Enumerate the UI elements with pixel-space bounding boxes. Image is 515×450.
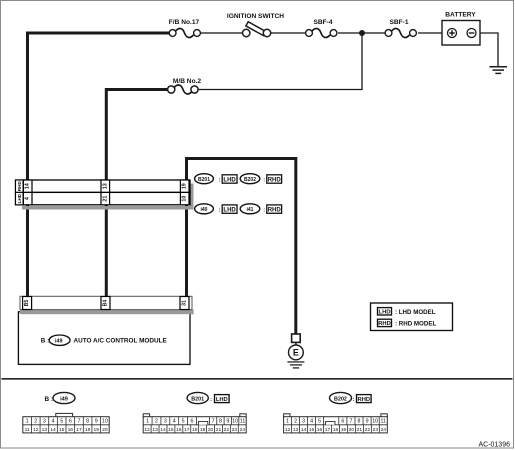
- svg-text:AC-01396: AC-01396: [478, 442, 510, 449]
- svg-text:7: 7: [77, 419, 80, 425]
- svg-text:12: 12: [144, 427, 150, 433]
- svg-text:11: 11: [25, 427, 30, 433]
- svg-text:17: 17: [325, 427, 331, 433]
- svg-text:24: 24: [381, 427, 387, 433]
- svg-text:22: 22: [224, 427, 230, 433]
- tag RHD for B202: [263, 175, 281, 184]
- svg-text:14: 14: [50, 427, 56, 433]
- svg-text:3: 3: [43, 419, 46, 425]
- wire: thick feed from M/B No.2 down to pin 13: [106, 90, 169, 182]
- svg-text::: :: [263, 207, 265, 213]
- svg-text:B201: B201: [198, 177, 210, 183]
- wire: pin 4 down to module pin B5: [26, 204, 29, 297]
- svg-text:SBF-1: SBF-1: [389, 19, 408, 26]
- pin 19: [180, 180, 189, 192]
- connector B201 oval: [195, 174, 214, 184]
- svg-text:6: 6: [69, 419, 72, 425]
- svg-text:LHD: LHD: [17, 193, 22, 203]
- wire: thick feed from F/B No.17 down left side to pin 14: [28, 33, 170, 181]
- battery: [442, 12, 480, 46]
- connector i40 oval: [195, 204, 214, 214]
- fuse SBF-1: [385, 19, 416, 37]
- svg-text:RHD: RHD: [268, 178, 282, 184]
- svg-text:4: 4: [173, 419, 176, 425]
- connector bar shadow (upper): [22, 184, 194, 210]
- svg-text:21: 21: [102, 196, 108, 202]
- svg-text:6: 6: [190, 419, 193, 425]
- svg-text:2: 2: [34, 419, 37, 425]
- svg-text:4: 4: [310, 419, 313, 425]
- wire: pin 10 down to module pin 31: [185, 204, 188, 297]
- svg-text:B5: B5: [24, 300, 30, 307]
- svg-text:LHD: LHD: [216, 397, 228, 403]
- tag LHD for i40: [219, 205, 237, 214]
- pin 31: [180, 297, 189, 310]
- fuse SBF-4: [306, 19, 337, 37]
- fuse M/B No.2: [168, 85, 199, 94]
- svg-text:IGNITION SWITCH: IGNITION SWITCH: [227, 13, 284, 20]
- module box AUTO A/C CONTROL MODULE: [18, 310, 193, 365]
- svg-text:10: 10: [182, 196, 188, 202]
- wire: thin bus at y=33 from F/B No.17 to ignition switch: [199, 32, 243, 34]
- module connector bar (lower): [20, 296, 192, 309]
- svg-text:11: 11: [381, 419, 387, 425]
- svg-text:1: 1: [26, 419, 29, 425]
- svg-text:1: 1: [146, 419, 149, 425]
- svg-text:15: 15: [59, 427, 65, 433]
- ground connector square at E: [292, 334, 301, 342]
- connector B202 oval: [240, 174, 260, 184]
- svg-text:7: 7: [349, 419, 352, 425]
- pin B4: [101, 297, 110, 310]
- legend tag RHD: [378, 319, 437, 327]
- footer label B202 : RHD: [330, 392, 372, 403]
- svg-text:3: 3: [302, 419, 305, 425]
- svg-text:24: 24: [240, 427, 246, 433]
- footer connector B201 pin grid: [143, 414, 246, 433]
- pin 14: [23, 180, 32, 192]
- svg-text:RHD: RHD: [358, 397, 371, 403]
- svg-text:7: 7: [212, 419, 215, 425]
- svg-text:4: 4: [25, 197, 31, 200]
- wire: thin M/B No.2 line rightward to junction drop: [197, 89, 363, 91]
- svg-text:23: 23: [232, 427, 238, 433]
- svg-text:5: 5: [60, 419, 63, 425]
- svg-text:B202: B202: [244, 177, 256, 183]
- pin 13: [101, 180, 110, 192]
- connector bar left tag RHD: [16, 180, 24, 192]
- svg-text:1: 1: [286, 419, 289, 425]
- svg-text:18: 18: [333, 427, 339, 433]
- svg-text:6: 6: [341, 419, 344, 425]
- svg-text:10: 10: [232, 419, 238, 425]
- svg-text:B201: B201: [191, 396, 204, 402]
- svg-text:31: 31: [182, 300, 188, 306]
- wire: thick branch from pin 19 over to ground connector drop: [187, 159, 296, 335]
- svg-text:19: 19: [94, 427, 100, 433]
- svg-text:3: 3: [164, 419, 167, 425]
- svg-text:LHD: LHD: [379, 310, 391, 316]
- section separator line: [2, 378, 513, 380]
- svg-text:B :: B :: [41, 338, 49, 345]
- svg-text:B4: B4: [103, 300, 109, 307]
- svg-text:M/B No.2: M/B No.2: [173, 78, 202, 85]
- svg-text:13: 13: [152, 427, 158, 433]
- svg-text:8: 8: [219, 419, 222, 425]
- svg-text:2: 2: [294, 419, 297, 425]
- svg-text:12: 12: [285, 427, 291, 433]
- wire: battery output to ground: [480, 33, 498, 66]
- svg-text:4: 4: [52, 419, 55, 425]
- svg-text:14: 14: [160, 427, 166, 433]
- svg-text:5: 5: [318, 419, 321, 425]
- legend box: [371, 303, 453, 331]
- svg-text:10: 10: [372, 419, 378, 425]
- svg-text:F/B No.17: F/B No.17: [169, 19, 200, 26]
- connector bar upper: rows: [16, 180, 191, 205]
- pin 4: [23, 192, 32, 204]
- svg-text:i41: i41: [247, 207, 254, 213]
- module connector bar shadow: [20, 310, 194, 315]
- svg-text:16: 16: [68, 427, 74, 433]
- svg-text::: :: [219, 177, 221, 183]
- svg-text:14: 14: [301, 427, 307, 433]
- svg-text:AUTO A/C CONTROL MODULE: AUTO A/C CONTROL MODULE: [74, 338, 168, 345]
- svg-text:19: 19: [200, 427, 206, 433]
- svg-text:i49: i49: [55, 338, 63, 344]
- svg-text:BATTERY: BATTERY: [445, 12, 476, 19]
- svg-text:9: 9: [95, 419, 98, 425]
- svg-text:22: 22: [365, 427, 371, 433]
- svg-text:13: 13: [102, 183, 108, 189]
- svg-text:RHD: RHD: [17, 181, 22, 192]
- wire: junction drop from dot to M/B No.2 line: [361, 33, 363, 90]
- svg-text:8: 8: [358, 419, 361, 425]
- svg-text:SBF-4: SBF-4: [313, 19, 332, 26]
- svg-text:12: 12: [33, 427, 39, 433]
- svg-text::: :: [219, 207, 221, 213]
- svg-text:20: 20: [208, 427, 214, 433]
- svg-text:21: 21: [216, 427, 222, 433]
- svg-text:10: 10: [102, 419, 108, 425]
- ground (battery): [490, 67, 508, 74]
- svg-text:19: 19: [182, 183, 188, 189]
- legend tag LHD: [378, 308, 436, 316]
- svg-text:i49: i49: [60, 396, 68, 402]
- fuse F/B No.17: [169, 19, 201, 37]
- ignition switch SW: [227, 13, 284, 37]
- svg-text:20: 20: [349, 427, 355, 433]
- svg-text:RHD: RHD: [378, 321, 391, 327]
- junction node: [359, 30, 365, 36]
- svg-text:B :: B :: [45, 396, 54, 403]
- pin B5: [23, 297, 32, 310]
- svg-text:8: 8: [86, 419, 89, 425]
- svg-text::: :: [263, 177, 265, 183]
- svg-text:E: E: [293, 348, 299, 358]
- svg-text:23: 23: [373, 427, 379, 433]
- svg-text:18: 18: [85, 427, 91, 433]
- svg-text:: RHD MODEL: : RHD MODEL: [395, 321, 436, 328]
- svg-text:13: 13: [42, 427, 48, 433]
- svg-text:14: 14: [25, 183, 31, 189]
- svg-text:17: 17: [184, 427, 190, 433]
- svg-text:20: 20: [102, 427, 108, 433]
- svg-text:B202: B202: [334, 396, 347, 402]
- pin 21: [101, 192, 110, 204]
- svg-text:: LHD MODEL: : LHD MODEL: [395, 309, 436, 316]
- svg-text:i40: i40: [201, 207, 208, 213]
- svg-text:9: 9: [366, 419, 369, 425]
- ground E circle: [289, 342, 304, 359]
- wire: thin bus at y=33 from ignition switch to SBF-4: [270, 32, 306, 34]
- svg-text:9: 9: [226, 419, 229, 425]
- svg-text:21: 21: [357, 427, 363, 433]
- footer connector B202 pin grid: [284, 414, 388, 433]
- svg-text:15: 15: [309, 427, 315, 433]
- pin 10: [180, 192, 189, 204]
- footer label B: i49: [45, 392, 76, 403]
- svg-text:15: 15: [168, 427, 174, 433]
- svg-text:16: 16: [176, 427, 182, 433]
- svg-text::: :: [210, 397, 212, 403]
- svg-text:18: 18: [192, 427, 198, 433]
- footer label B201 : LHD: [187, 392, 229, 403]
- wire: pin 21 down to module pin B4: [105, 204, 108, 297]
- wire: thin bus at y=33 from SBF-1 to battery: [418, 32, 442, 34]
- svg-text:2: 2: [155, 419, 158, 425]
- connector bar left tag LHD: [16, 192, 24, 204]
- wire: thin bus at y=33 from SBF-4 to SBF-1 through junction: [338, 32, 386, 34]
- svg-text:LHD: LHD: [223, 208, 236, 214]
- svg-text:LHD: LHD: [223, 178, 236, 184]
- svg-text:16: 16: [317, 427, 323, 433]
- svg-text:19: 19: [341, 427, 347, 433]
- ground (E): [287, 362, 304, 368]
- connector i41 oval: [240, 204, 260, 214]
- svg-text:RHD: RHD: [268, 208, 282, 214]
- tag LHD for B201: [219, 175, 237, 184]
- svg-text:17: 17: [76, 427, 82, 433]
- svg-text:5: 5: [182, 419, 185, 425]
- svg-text::: :: [353, 397, 355, 403]
- svg-text:11: 11: [240, 419, 246, 425]
- svg-text:13: 13: [293, 427, 299, 433]
- tag RHD for i41: [263, 205, 281, 214]
- footer connector i49 pin grid: [23, 413, 109, 433]
